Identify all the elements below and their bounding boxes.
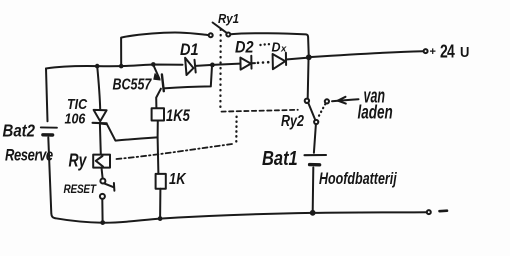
push button RESET xyxy=(100,179,115,199)
wire RESET to bottom rail xyxy=(101,199,103,222)
wire 1K to bottom rail xyxy=(159,189,161,218)
thyristor TIC106 xyxy=(93,110,107,123)
node +24V junction xyxy=(306,54,312,60)
node RESET on rail xyxy=(100,220,105,225)
svg-text:Ry2: Ry2 xyxy=(281,112,304,130)
svg-text:D1: D1 xyxy=(180,41,199,59)
mechanical linkage Ry to Ry2 (dash-dot rising) xyxy=(117,144,233,159)
svg-text:x: x xyxy=(280,44,287,55)
wire gate node down to 1K xyxy=(157,137,160,173)
node 1K on rail xyxy=(158,216,163,221)
wire Bat2 to bottom rail xyxy=(48,138,55,219)
wire bottom rail xyxy=(55,212,427,223)
mechanical linkage vertical dotted up xyxy=(235,114,238,142)
wire +24V node down to Ry2 xyxy=(307,60,310,98)
svg-text:24: 24 xyxy=(440,42,455,62)
node top rail / BC557 emitter xyxy=(151,62,156,67)
label minus xyxy=(440,209,448,212)
relay contact Ry1 xyxy=(209,23,231,38)
relay coil Ry xyxy=(93,155,110,168)
svg-text:D: D xyxy=(272,41,281,55)
svg-text:BC557: BC557 xyxy=(113,75,153,93)
svg-text:Reserve: Reserve xyxy=(5,146,53,165)
wire left rail down to Bat2 xyxy=(46,69,48,122)
battery Bat2 xyxy=(41,127,57,135)
diode D2 xyxy=(240,56,255,70)
svg-text:RESET: RESET xyxy=(64,183,98,196)
wire top rail left xyxy=(46,65,183,69)
svg-text:+: + xyxy=(430,46,436,58)
diode Dx xyxy=(273,53,309,69)
arrow van laden xyxy=(332,97,359,104)
svg-text:Hoofdbatterij: Hoofdbatterij xyxy=(319,171,398,189)
wire D1 cathode to D2 anode xyxy=(196,64,240,66)
terminal +24V xyxy=(424,49,428,53)
resistor 1K xyxy=(156,174,166,189)
svg-text:D2: D2 xyxy=(235,39,254,57)
svg-text:1K5: 1K5 xyxy=(166,106,190,125)
terminal minus xyxy=(427,210,431,214)
svg-text:Ry1: Ry1 xyxy=(218,11,239,26)
wire +24V rail xyxy=(312,51,423,57)
node top rail / TIC106 anode xyxy=(95,64,100,69)
wire TIC106 gate xyxy=(101,124,157,141)
svg-text:Ry: Ry xyxy=(69,151,88,171)
wire Ry coil to RESET switch xyxy=(102,168,103,179)
wire TIC106 anode xyxy=(97,66,100,109)
mechanical linkage to Ry2 (dashed horizontal) xyxy=(222,110,298,112)
wire Ry2 wiper to Bat1 xyxy=(314,124,316,153)
resistor 1K5 xyxy=(152,108,164,120)
svg-text:106: 106 xyxy=(65,111,86,127)
node D1/D2 junction xyxy=(210,63,215,68)
dots between labels D2 and Dx xyxy=(259,43,270,46)
relay contact Ry2 xyxy=(305,99,329,124)
wire to Ry1 left contact xyxy=(121,33,209,67)
node Bat1 on rail xyxy=(310,210,316,216)
svg-text:Bat2: Bat2 xyxy=(3,122,36,141)
wire 1K5 bottom to gate node xyxy=(157,121,159,138)
svg-text:Bat1: Bat1 xyxy=(262,146,298,169)
svg-text:1K: 1K xyxy=(169,171,187,188)
dotted wire D2 to Dx xyxy=(257,61,270,64)
wire TIC106 cathode to Ry coil xyxy=(99,124,102,154)
svg-text:U: U xyxy=(460,43,469,60)
transistor Q1 BC557 xyxy=(153,65,212,108)
svg-text:laden: laden xyxy=(358,101,393,123)
wire Bat1 to bottom rail xyxy=(312,168,315,212)
mechanical linkage Ry1 (dotted vertical) xyxy=(219,30,222,108)
battery Bat1 xyxy=(305,155,327,165)
wire Ry1 right contact to +24V node xyxy=(230,33,308,54)
diode D1 xyxy=(185,58,196,75)
node top rail / Ry1 branch xyxy=(119,64,124,69)
